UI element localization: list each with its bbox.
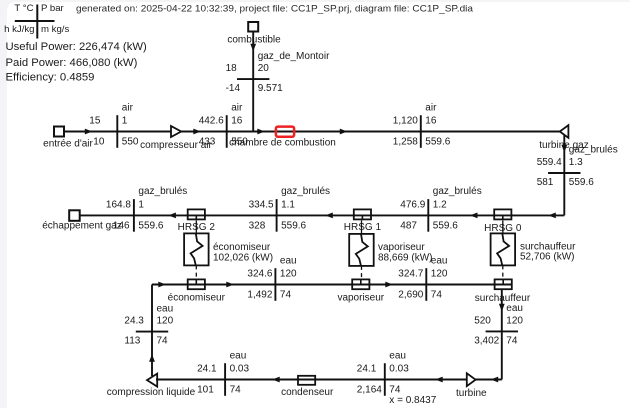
svg-text:324.6: 324.6 [247, 269, 272, 280]
header generated-on text [76, 3, 474, 14]
svg-text:0.03: 0.03 [389, 364, 409, 375]
svg-text:air: air [425, 102, 437, 113]
wire arrow exhaust steam left [435, 377, 443, 383]
wire steam right vertical [501, 289, 503, 380]
wire arrow fuel junction [257, 129, 265, 135]
svg-text:1,258: 1,258 [393, 136, 418, 147]
svg-text:74: 74 [389, 384, 401, 395]
svg-text:0.03: 0.03 [230, 364, 250, 375]
svg-text:52,706 (kW): 52,706 (kW) [520, 252, 574, 263]
svg-text:74: 74 [280, 289, 292, 300]
wire arrow flue gas left 2 [325, 213, 333, 219]
svg-text:120: 120 [280, 269, 297, 280]
svg-text:559.6: 559.6 [433, 220, 458, 231]
wire water left vertical [151, 285, 153, 377]
svg-text:146: 146 [113, 220, 130, 231]
pump compression liquide [107, 374, 196, 399]
svg-text:520: 520 [474, 316, 491, 327]
svg-text:120: 120 [431, 269, 448, 280]
svg-text:16: 16 [231, 116, 243, 127]
svg-text:h kJ/kg: h kJ/kg [4, 24, 34, 35]
svg-text:74: 74 [506, 336, 518, 347]
exchanger HRSG 2 gas side [178, 209, 216, 233]
svg-text:559.4: 559.4 [537, 157, 562, 168]
svg-text:24.1: 24.1 [197, 364, 217, 375]
source entrée d'air [43, 127, 93, 150]
wire condenser line horizontal [156, 379, 502, 381]
svg-text:120: 120 [506, 316, 523, 327]
svg-text:1.3: 1.3 [569, 157, 583, 168]
svg-text:gaz_brulés: gaz_brulés [433, 186, 482, 197]
svg-text:compression liquide: compression liquide [107, 387, 196, 398]
node steam state (324.7°C 120 bar) [398, 255, 448, 301]
wire arrow after compressor [193, 129, 201, 135]
svg-text:gaz_brulés: gaz_brulés [138, 186, 187, 197]
thermal coupler économiseur block [184, 221, 273, 280]
svg-text:581: 581 [537, 177, 554, 188]
svg-text:442.6: 442.6 [199, 116, 224, 127]
wire arrow after steam turbine [491, 377, 499, 383]
svg-text:433: 433 [199, 136, 216, 147]
useful power text [6, 41, 148, 53]
sink échappement gaz [42, 210, 122, 231]
svg-text:échappement gaz: échappement gaz [42, 220, 122, 231]
svg-text:generated on: 2025-04-22 10:32: generated on: 2025-04-22 10:32:39, proje… [76, 3, 474, 14]
svg-text:1.2: 1.2 [433, 200, 447, 211]
svg-text:18: 18 [226, 63, 238, 74]
node condensate state (24.1°C 0.03 bar) [197, 350, 249, 396]
legend units cross [4, 3, 69, 39]
wire arrow air inlet [85, 129, 93, 135]
svg-text:328: 328 [249, 220, 266, 231]
wire arrow after combustor [340, 129, 348, 135]
svg-text:24.1: 24.1 [357, 364, 377, 375]
paid power text [6, 57, 138, 69]
svg-text:gaz_brulés: gaz_brulés [281, 186, 330, 197]
node air state 1 (15°C 1 bar) [89, 102, 139, 148]
svg-text:gaz_de_Montoir: gaz_de_Montoir [258, 51, 330, 62]
svg-text:Paid Power: 466,080 (kW): Paid Power: 466,080 (kW) [6, 57, 138, 69]
wire arrow fuel down [250, 44, 256, 52]
svg-text:T °C: T °C [14, 3, 33, 14]
exchanger vaporiseur water side [337, 279, 384, 303]
svg-text:559.6: 559.6 [138, 220, 163, 231]
svg-text:88,669 (kW): 88,669 (kW) [378, 252, 432, 263]
svg-text:1,492: 1,492 [247, 289, 272, 300]
svg-text:334.5: 334.5 [249, 200, 274, 211]
svg-text:10: 10 [93, 136, 105, 147]
svg-text:Useful Power: 226,474 (kW): Useful Power: 226,474 (kW) [6, 41, 148, 53]
efficiency text [6, 71, 95, 83]
svg-text:eau: eau [431, 255, 448, 266]
exchanger économiseur water side [168, 279, 226, 303]
svg-text:turbine: turbine [456, 388, 487, 399]
exchanger surchauffeur water side [475, 279, 531, 303]
svg-text:m kg/s: m kg/s [41, 24, 69, 35]
svg-text:16: 16 [425, 116, 437, 127]
wire arrow water right 1 [158, 282, 166, 288]
svg-text:eau: eau [506, 303, 523, 314]
svg-text:eau: eau [230, 350, 247, 361]
svg-text:1: 1 [138, 200, 144, 211]
svg-text:102,026 (kW): 102,026 (kW) [213, 252, 273, 263]
exchanger HRSG 1 gas side [344, 209, 382, 233]
svg-text:eau: eau [280, 255, 297, 266]
wire arrow condensate left 1 [272, 377, 280, 383]
svg-text:x = 0.8437: x = 0.8437 [389, 395, 436, 406]
wire gas turbine outlet vertical [563, 132, 565, 216]
svg-text:550: 550 [122, 136, 139, 147]
turbine steam turbine [456, 373, 487, 399]
svg-text:487: 487 [400, 220, 417, 231]
svg-text:chambre de combustion: chambre de combustion [229, 138, 336, 149]
svg-text:74: 74 [157, 336, 169, 347]
compressor compresseur air [140, 126, 212, 151]
svg-text:2,690: 2,690 [398, 289, 423, 300]
wire gaz brulés horizontal [80, 214, 565, 216]
svg-text:Efficiency: 0.4859: Efficiency: 0.4859 [6, 71, 95, 83]
node superheated steam (520°C 120 bar) [474, 303, 523, 346]
svg-text:vaporiseur: vaporiseur [337, 293, 384, 304]
wire arrow water right 3 [385, 282, 393, 288]
svg-text:559.6: 559.6 [281, 220, 306, 231]
wire combustible vertical [252, 32, 254, 132]
node flue gas state (476.9°C 1.2 bar) [400, 186, 481, 232]
thermal coupler vaporiseur block [349, 221, 432, 280]
svg-text:559.6: 559.6 [425, 136, 450, 147]
source combustible [227, 22, 281, 46]
svg-text:476.9: 476.9 [400, 200, 425, 211]
exchanger HRSG 0 gas side [484, 209, 522, 234]
wire arrow steam down [499, 304, 505, 312]
svg-text:économiseur: économiseur [168, 293, 226, 304]
node feedwater state (24.3°C 120 bar) [124, 303, 173, 346]
svg-text:120: 120 [157, 316, 174, 327]
svg-text:air: air [122, 102, 134, 113]
node exhaust state (559.4°C 1.3 bar) [537, 145, 618, 188]
node fuel gaz_de_Montoir (18°C 20 bar) [226, 51, 330, 94]
svg-text:condenseur: condenseur [281, 387, 334, 398]
svg-text:74: 74 [230, 384, 242, 395]
wire arrow water right 2 [226, 282, 234, 288]
svg-text:20: 20 [258, 63, 270, 74]
wire arrow flue gas left 4 [548, 213, 556, 219]
wire arrow water up [149, 354, 155, 362]
svg-text:24.3: 24.3 [124, 316, 144, 327]
svg-text:15: 15 [89, 116, 101, 127]
wire arrow flue gas left 3 [470, 213, 478, 219]
thermal coupler surchauffeur block [491, 221, 576, 280]
svg-text:101: 101 [197, 384, 214, 395]
wire air line horizontal [64, 131, 561, 133]
node water state (324.6°C 120 bar) [247, 255, 297, 301]
svg-text:eau: eau [157, 303, 174, 314]
turbine gaz [539, 125, 588, 151]
wire water line horizontal [152, 284, 511, 286]
svg-text:-14: -14 [226, 83, 241, 94]
svg-text:559.6: 559.6 [569, 177, 594, 188]
svg-text:3,402: 3,402 [474, 336, 499, 347]
svg-text:1.1: 1.1 [281, 200, 295, 211]
combustion chamber (chambre de combustion) [229, 127, 336, 149]
wire arrow flue gas left 1 [168, 213, 176, 219]
svg-text:P bar: P bar [41, 3, 65, 14]
svg-text:9.571: 9.571 [258, 83, 283, 94]
svg-text:eau: eau [389, 350, 406, 361]
svg-text:HRSG 1: HRSG 1 [344, 222, 382, 233]
node gas state 3 (1,120°C 16 bar) [393, 102, 451, 148]
svg-text:air: air [231, 102, 243, 113]
node stack state (164.8°C 1 bar) [106, 186, 187, 232]
svg-text:324.7: 324.7 [398, 269, 423, 280]
svg-text:gaz_brulés: gaz_brulés [569, 145, 618, 156]
svg-text:entrée d'air: entrée d'air [43, 139, 93, 150]
svg-text:2,164: 2,164 [357, 384, 382, 395]
condenser condenseur [281, 376, 334, 398]
svg-text:1,120: 1,120 [393, 116, 418, 127]
node air state 2 (442.6°C 16 bar) [199, 102, 249, 148]
wire arrow gas down [561, 145, 567, 153]
svg-text:1: 1 [122, 116, 128, 127]
svg-text:113: 113 [124, 336, 140, 347]
svg-text:164.8: 164.8 [106, 200, 131, 211]
svg-text:74: 74 [431, 289, 443, 300]
node flue gas state (334.5°C 1.1 bar) [249, 186, 330, 232]
node wet steam state (24.1°C 0.03 bar x=0.8437) [357, 350, 437, 406]
